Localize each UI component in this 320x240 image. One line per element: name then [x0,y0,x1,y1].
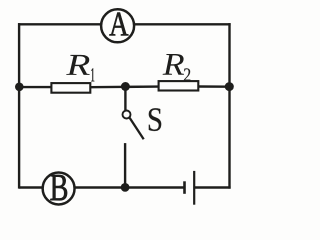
wire bottom right (battery to corner) [194,186,230,188]
battery negative plate (short) [183,181,186,194]
wire middle between R1 and center node [90,85,158,88]
ammeter U1 circle [101,9,134,42]
resistor R1 box [51,83,90,93]
node left junction [15,83,24,92]
wire top right segment [134,23,231,25]
resistor R1 label [66,55,90,75]
wire switch upper stub [124,87,126,111]
node bottom junction [121,183,130,192]
switch S blade [130,118,144,140]
wire middle right (R2 to node) [198,85,229,88]
switch S label [149,108,161,131]
device B circle (bottom) [43,173,75,205]
wire top left segment [18,23,102,25]
wire bottom middle (B to battery) [74,186,184,188]
wire switch lower vertical [124,143,126,187]
wire middle left (node to R1) [19,86,51,88]
wire right vertical [228,23,230,189]
node right junction [225,82,234,91]
node center junction [121,82,130,91]
wire bottom left (corner to B) [19,186,43,188]
resistor R2 label [163,54,184,75]
device B letter [50,175,67,200]
ammeter U1 letter A [109,13,128,36]
wire left vertical [18,23,20,189]
switch S pivot circle [123,111,131,119]
resistor R2 box [159,81,199,90]
battery positive plate (long) [193,171,195,205]
